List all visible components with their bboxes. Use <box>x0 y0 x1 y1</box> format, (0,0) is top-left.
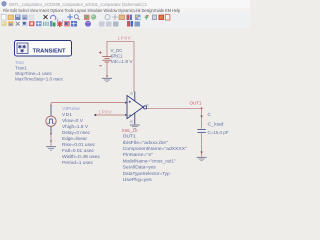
svg-text:C_load: C_load <box>208 122 224 127</box>
svg-text:V_DC: V_DC <box>111 48 124 53</box>
svg-text:PinName="4": PinName="4" <box>123 152 153 158</box>
svg-text:1P8V: 1P8V <box>99 110 112 115</box>
svg-text:DSTL_comparator_ACDS09_compara: DSTL_comparator_ACDS09_comparator_sch011… <box>9 2 148 7</box>
svg-text:Edge=linear: Edge=linear <box>62 136 87 141</box>
svg-text:X66_10: X66_10 <box>122 128 139 133</box>
svg-text:File Edit Select View Inse: File Edit Select View Insert Options Too… <box>3 8 181 13</box>
svg-text:✱: ✱ <box>20 49 24 55</box>
svg-text:ModelName="cmos_out1": ModelName="cmos_out1" <box>123 158 176 164</box>
svg-text:IbisFile="adxxx.ibs": IbisFile="adxxx.ibs" <box>123 140 168 146</box>
svg-text:1P8V: 1P8V <box>118 35 131 40</box>
svg-text:VD1: VD1 <box>62 112 72 117</box>
svg-text:OUT1: OUT1 <box>123 133 136 139</box>
svg-text:ComponentName="adXXXX": ComponentName="adXXXX" <box>123 146 187 152</box>
svg-text:Tran1: Tran1 <box>15 66 27 71</box>
svg-text:VtPulse: VtPulse <box>62 106 80 111</box>
svg-text:Vlow=0 V: Vlow=0 V <box>62 118 84 123</box>
svg-text:Vdc=1.8 V: Vdc=1.8 V <box>111 59 134 64</box>
svg-text:Tran: Tran <box>15 60 24 65</box>
svg-text:OUT1: OUT1 <box>190 101 203 106</box>
svg-text:Period=1 usec: Period=1 usec <box>62 160 94 165</box>
svg-text:C=15.0 pF: C=15.0 pF <box>208 130 229 135</box>
svg-text:SetAllData=yes: SetAllData=yes <box>123 165 157 171</box>
svg-text:Vhigh=1.8 V: Vhigh=1.8 V <box>62 124 89 129</box>
svg-text:SRC1: SRC1 <box>111 54 123 59</box>
svg-text:Rise=0.01 usec: Rise=0.01 usec <box>62 142 96 147</box>
svg-text:Fall=0.01 usec: Fall=0.01 usec <box>62 148 95 153</box>
svg-text:TRANSIENT: TRANSIENT <box>33 48 66 54</box>
svg-text:DataTypeSelector=Typ: DataTypeSelector=Typ <box>123 171 170 177</box>
svg-text:StopTime=1 usec: StopTime=1 usec <box>15 71 53 76</box>
svg-text:UsePkg=yes: UsePkg=yes <box>123 177 153 183</box>
svg-text:MaxTimeStep=1.0 nsec: MaxTimeStep=1.0 nsec <box>15 77 64 82</box>
svg-text:Width=0.49 usec: Width=0.49 usec <box>62 154 101 159</box>
svg-text:✱: ✱ <box>57 20 64 29</box>
svg-text:Delay=0 nsec: Delay=0 nsec <box>62 130 91 135</box>
